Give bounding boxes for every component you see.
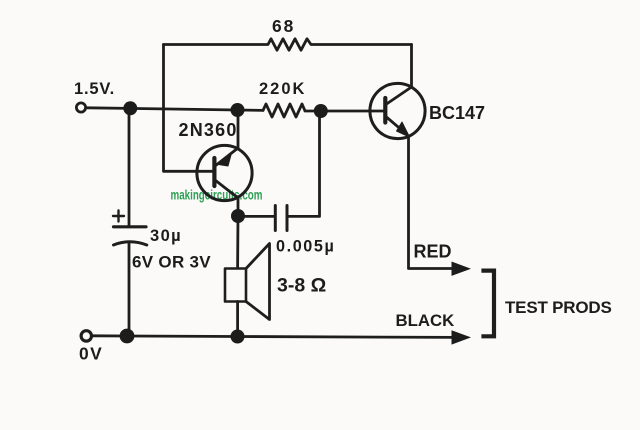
- svg-text:1.5V.: 1.5V.: [74, 80, 115, 98]
- wire C2 to node C: [287, 112, 320, 216]
- wire speaker to node E: [236, 302, 239, 337]
- node A supply junction: [123, 101, 137, 115]
- node C R2 right C2: [314, 104, 328, 118]
- svg-text:3-8 Ω: 3-8 Ω: [277, 275, 326, 297]
- svg-text:RED: RED: [414, 242, 452, 262]
- node D Q1 collector junction: [231, 209, 245, 223]
- wire battery branch down: [128, 109, 131, 227]
- svg-text:68: 68: [272, 16, 295, 36]
- wire Q1 emitter up to node B: [237, 110, 240, 148]
- wire 68 loop right vertical to Q2 collector: [410, 45, 413, 88]
- resistor R2 220K: [263, 104, 305, 117]
- svg-text:6V OR 3V: 6V OR 3V: [132, 253, 211, 272]
- speaker LS1: [225, 244, 270, 320]
- resistor R1 68 with top rail: [164, 39, 412, 50]
- svg-text:TEST PRODS: TEST PRODS: [505, 298, 612, 317]
- wire Q1 collector down to node D: [237, 198, 240, 216]
- arrowhead BLACK: [452, 330, 472, 344]
- wire C1 to ground rail: [128, 243, 131, 337]
- wire rail node C to Q2 base: [305, 110, 384, 113]
- node E speaker bottom: [231, 330, 245, 344]
- node ground left: [120, 329, 135, 344]
- svg-text:BC147: BC147: [429, 103, 485, 123]
- svg-text:220K: 220K: [259, 80, 306, 98]
- wire node D to capacitor C2: [238, 215, 274, 218]
- wire 1.5V rail: [87, 108, 263, 111]
- svg-text:0V: 0V: [79, 344, 103, 364]
- svg-text:BLACK: BLACK: [396, 311, 455, 330]
- svg-text:0.005µ: 0.005µ: [276, 238, 335, 256]
- bracket TEST PRODS: [484, 271, 495, 337]
- wire ground rail BLACK lead: [93, 336, 456, 338]
- transistor Q2 BC147: [370, 83, 425, 138]
- transistor Q1 2N360: [197, 145, 252, 200]
- svg-text:30µ: 30µ: [150, 227, 182, 245]
- svg-text:2N360: 2N360: [179, 120, 238, 140]
- terminal 1.5V: [76, 103, 85, 112]
- arrowhead RED: [452, 262, 472, 276]
- capacitor C1 30u electrolytic: [113, 211, 147, 246]
- wire 68 loop left vertical and Q1 base lead: [164, 45, 214, 172]
- wire node D to speaker: [236, 216, 239, 268]
- node B R2 left Q1 emitter: [231, 103, 245, 117]
- wire Q2 emitter RED lead: [409, 136, 457, 269]
- capacitor C2 0.005u: [275, 206, 287, 231]
- terminal 0V: [81, 331, 91, 341]
